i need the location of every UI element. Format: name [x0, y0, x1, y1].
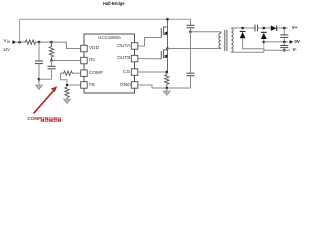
- pin box RC: [81, 57, 88, 64]
- node half-bridge midpoint: [166, 47, 169, 50]
- capacitor C1: [35, 60, 43, 62]
- node 0V cap: [283, 41, 286, 44]
- pin label FB: [89, 83, 95, 87]
- wire node A down to C1: [38, 42, 40, 61]
- label V+: [292, 26, 298, 31]
- node power ground: [166, 87, 169, 90]
- wire D3 to V+: [277, 27, 288, 29]
- diode D2: [261, 31, 267, 33]
- wire D1 anode to lower merge: [243, 38, 264, 50]
- pin box VDD: [81, 45, 88, 52]
- annotation red text COMP pin note: [27, 117, 41, 122]
- wire C2 bottom to C1 bottom: [39, 78, 52, 80]
- annotation red CJK glyph blocks: [41, 117, 61, 121]
- transformer T1 core: [224, 30, 226, 51]
- node D2 cathode: [263, 27, 266, 30]
- pin box CS: [131, 69, 138, 76]
- pin label COMP: [89, 71, 103, 75]
- resistor R1 input series: [24, 40, 37, 44]
- wire 0V line: [264, 41, 289, 43]
- wire top rail: [20, 18, 191, 20]
- ground input filter: [35, 85, 42, 90]
- wire GND to power ground: [138, 85, 191, 88]
- title Half-Bridge: [103, 2, 124, 7]
- capacitor series output: [254, 25, 256, 32]
- node primary top: [189, 31, 192, 34]
- node Q1 drain on rail: [166, 18, 169, 21]
- node 0V tap: [263, 41, 266, 44]
- pin box GND: [131, 82, 138, 89]
- label UCCx808A: [98, 36, 121, 40]
- node VIN junction: [18, 41, 21, 44]
- capacitor bridge lower: [187, 72, 195, 74]
- wire RC node down to C2: [51, 61, 53, 67]
- wire D2 anode to 0V node: [263, 39, 265, 49]
- op IC U1 UCCx808A body: [84, 34, 135, 93]
- wire V- line: [264, 49, 290, 51]
- node CS sense: [166, 71, 169, 74]
- resistor R5 current sense: [165, 72, 169, 87]
- wire primary node down to bridge lower cap: [190, 32, 192, 73]
- resistor R2 RC timing: [49, 42, 53, 60]
- wire cap to D2 node: [258, 27, 271, 29]
- node V+ cap top: [283, 27, 286, 30]
- node V- cap: [283, 49, 286, 52]
- pin label VDD: [89, 46, 99, 50]
- capacitor output lower: [283, 42, 285, 46]
- node RC: [50, 59, 53, 62]
- annotation red arrow: [34, 89, 56, 114]
- pin box OUTA: [131, 43, 138, 50]
- transformer T1 primary winding: [219, 32, 221, 49]
- node B: [50, 41, 53, 44]
- wire C2 to ground line: [51, 69, 53, 79]
- ground FB divider: [63, 99, 70, 104]
- wire OUTA to Q1 gate: [138, 38, 162, 47]
- input terminal arrow: [12, 40, 16, 44]
- node secondary top: [241, 27, 244, 30]
- terminal arrow 0V: [290, 40, 294, 44]
- wire CS to sense node: [138, 71, 167, 73]
- wire cap to primary node: [190, 28, 192, 32]
- transistor Q1 high-side: [161, 19, 167, 48]
- wire VIN node up to top rail: [19, 19, 21, 42]
- wire FB pin to divider: [67, 84, 81, 86]
- node C1 bottom: [38, 78, 41, 81]
- label 0V: [294, 40, 300, 45]
- pin label OUTB: [117, 56, 130, 60]
- label V-: [293, 48, 297, 53]
- wire primary top lead: [191, 31, 221, 33]
- pin box COMP: [81, 70, 88, 77]
- label VIN: [4, 40, 10, 45]
- label 14V: [3, 49, 10, 54]
- wire VIN to node: [16, 41, 24, 43]
- pin label GND: [120, 83, 131, 87]
- pin label OUTA: [117, 44, 131, 48]
- wire R3 to COMP pin: [74, 72, 81, 74]
- node FB: [66, 84, 68, 86]
- pin box OUTB: [131, 55, 138, 62]
- wire C1 to ground node: [38, 64, 40, 85]
- transformer T1 secondary winding: [231, 28, 233, 52]
- pin label CS: [123, 70, 130, 74]
- ground power stage: [163, 91, 170, 95]
- resistor R3 COMP: [61, 71, 74, 75]
- capacitor bridge upper: [190, 19, 192, 25]
- pin box FB: [81, 82, 88, 89]
- wire RC node to RC pin: [52, 60, 81, 62]
- diode D1: [240, 30, 246, 32]
- capacitor output upper: [283, 28, 285, 35]
- diode D3: [271, 26, 277, 31]
- node A: [38, 41, 41, 44]
- wire node B to VDD step: [52, 42, 81, 48]
- wire secondary top lead: [231, 27, 255, 29]
- wire COMP network to FB node: [61, 73, 67, 87]
- pin label RC: [89, 58, 95, 62]
- transistor Q2 low-side: [161, 49, 167, 73]
- wire midpoint to primary bottom: [168, 48, 221, 50]
- resistor R4 FB lower: [65, 87, 69, 99]
- capacitor C2 timing: [48, 65, 56, 67]
- wire secondary bottom lead: [231, 50, 264, 52]
- wire OUTB to Q2 gate: [138, 58, 162, 60]
- wire R1 to node A: [37, 41, 52, 43]
